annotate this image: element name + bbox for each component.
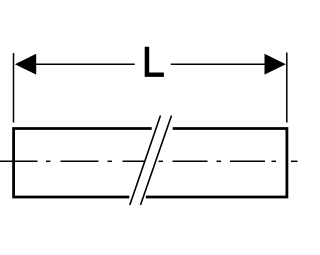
extension line left (13, 53, 15, 123)
break line 2 (141, 116, 172, 206)
break line 1 (130, 116, 161, 206)
extension line right (286, 53, 288, 123)
arrowhead right (265, 54, 286, 75)
dimension line left segment (36, 63, 135, 65)
centerline (dash-dot axis) (0, 160, 298, 162)
dimension line right segment (171, 63, 265, 65)
rod body outline (with break gaps) (14, 129, 287, 198)
arrowhead left (15, 54, 36, 75)
dimension label L (145, 47, 164, 77)
